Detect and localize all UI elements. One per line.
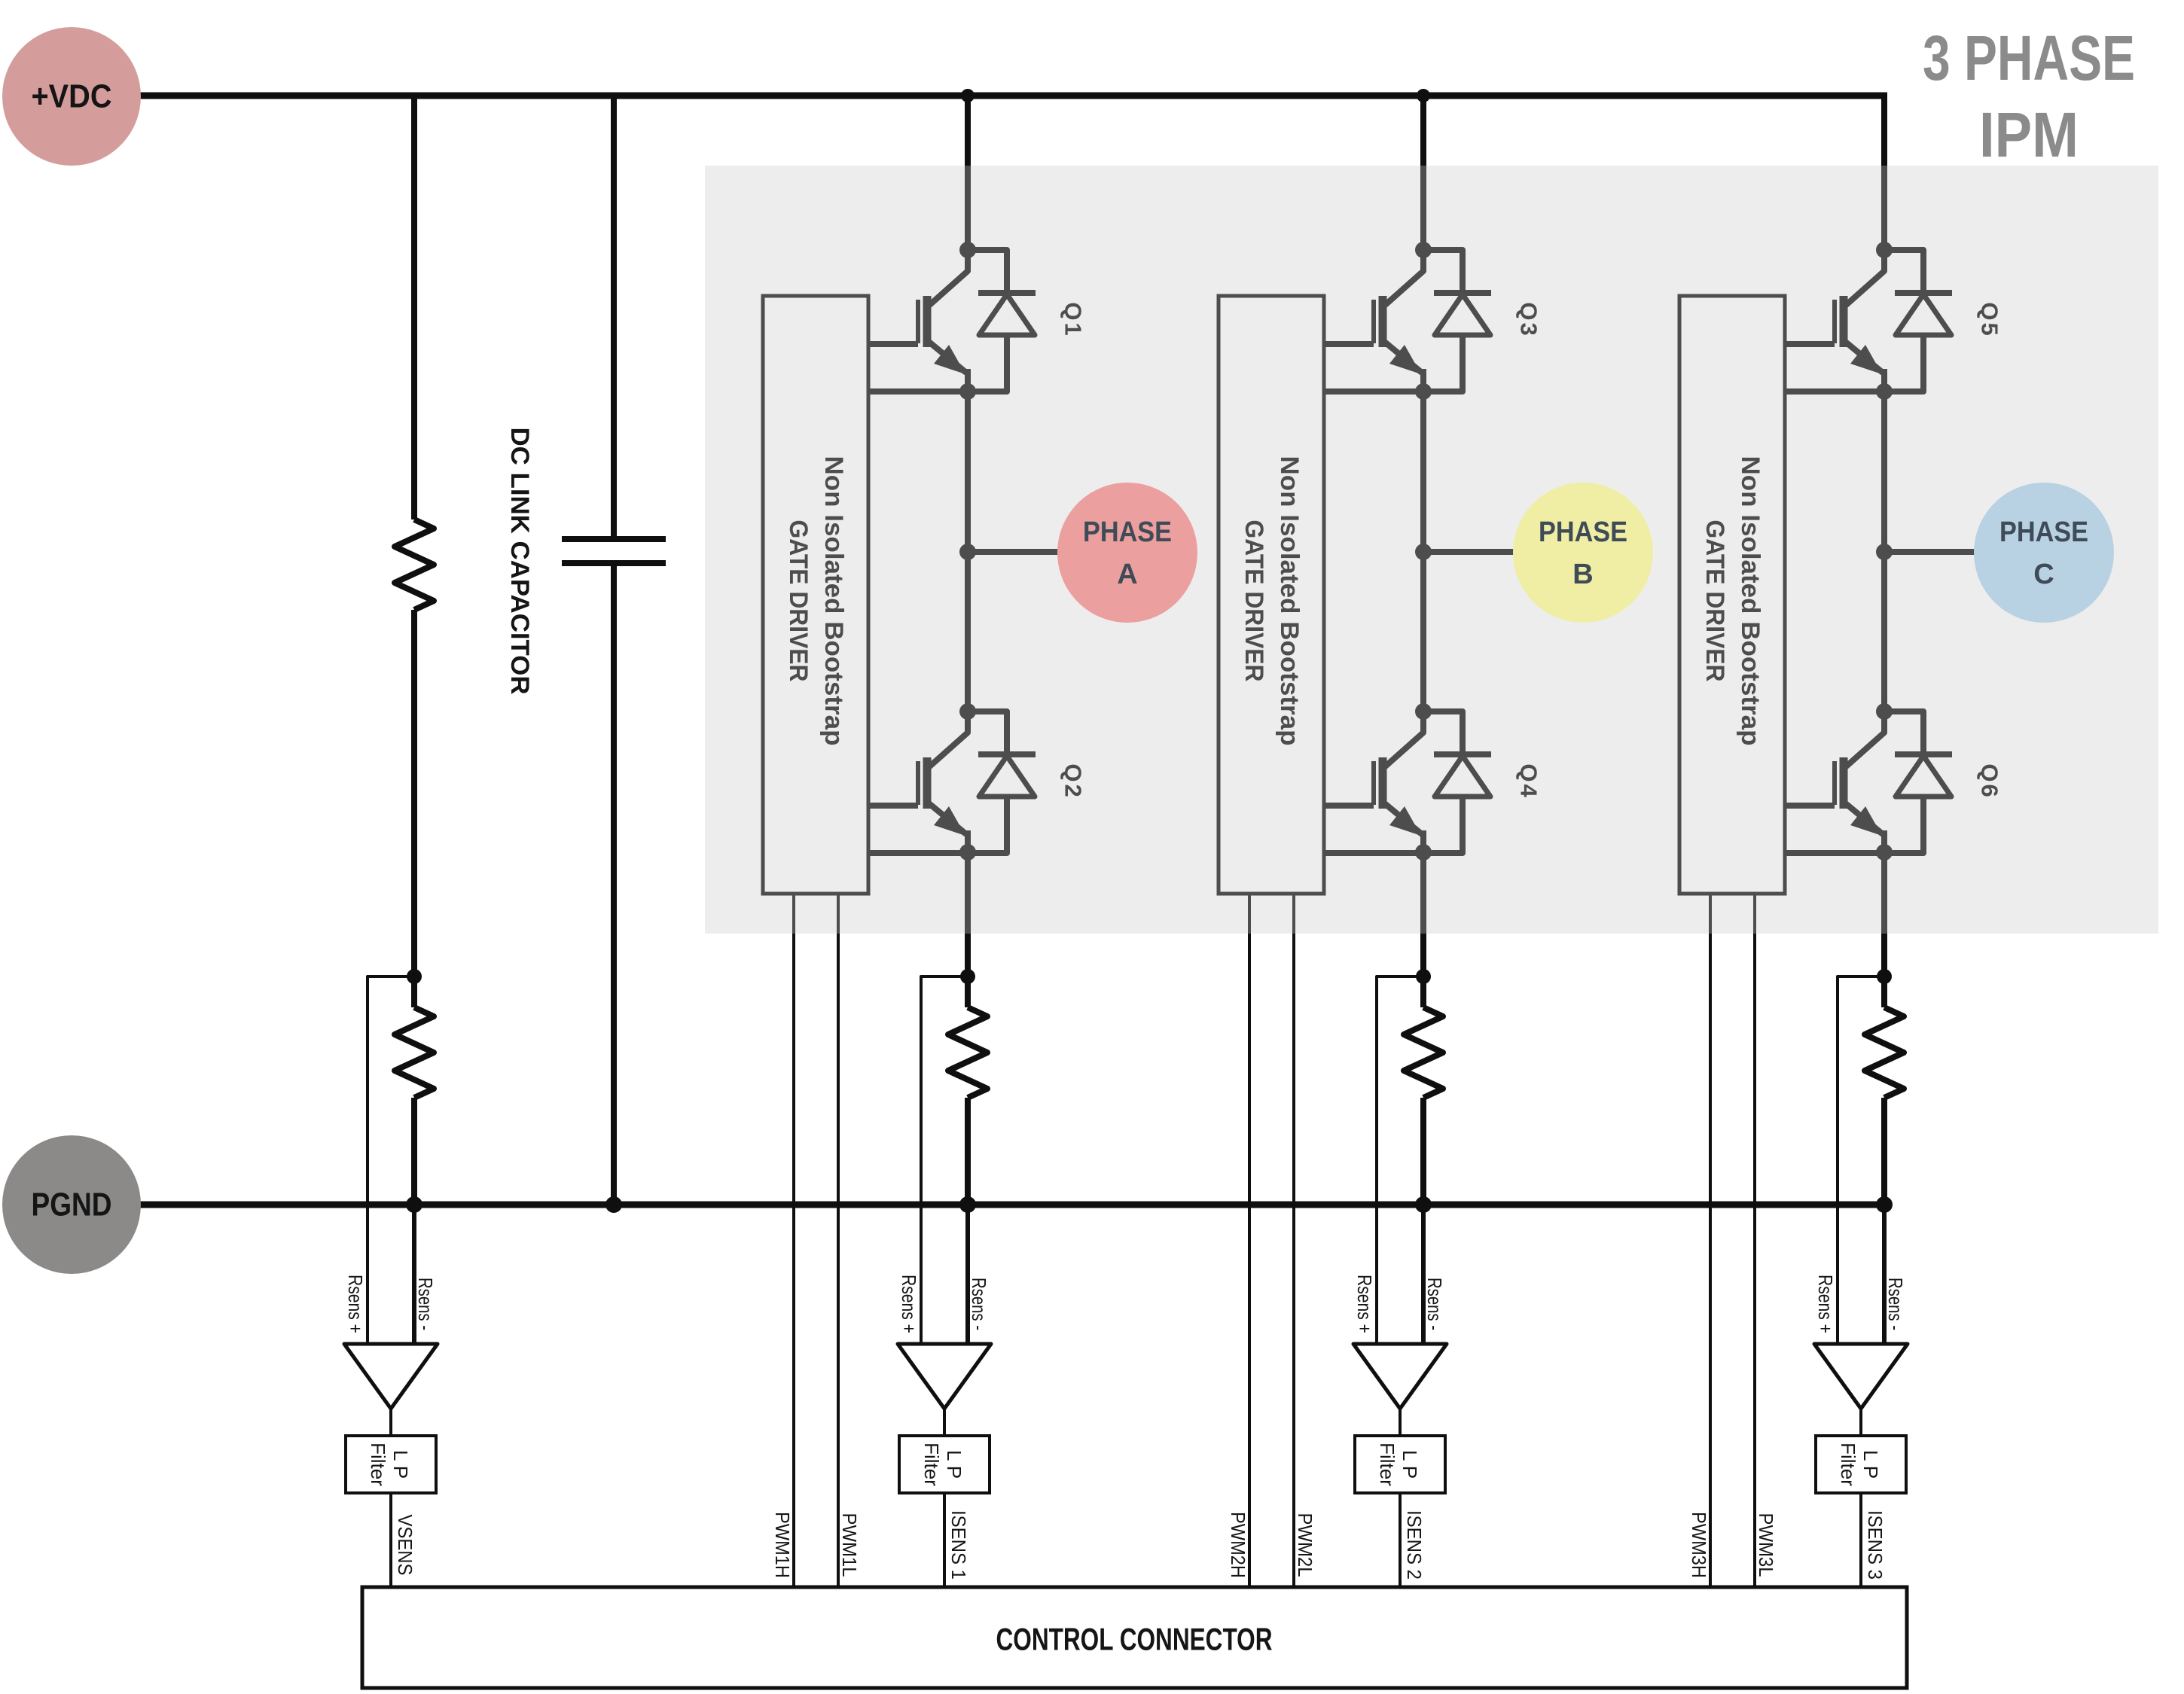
wire Rsens+ tap I2	[1377, 976, 1423, 1344]
node collector Q4	[1415, 703, 1432, 720]
label ISENS 2	[1403, 1510, 1426, 1580]
svg-text:Filter: Filter	[367, 1443, 389, 1486]
wire gate lead Q4	[1324, 803, 1374, 809]
svg-text:PWM1H: PWM1H	[771, 1512, 794, 1578]
svg-text:A: A	[1117, 559, 1137, 590]
wire phase B midpoint	[1420, 392, 1426, 711]
wire +VDC rail to Q3 (phase B top feed)	[1420, 93, 1426, 250]
node +VDC	[2, 27, 141, 166]
wire LP filter I1 to connector	[943, 1493, 946, 1587]
transistor Q6 (IGBT)	[1835, 711, 1884, 853]
wire phase C midpoint	[1881, 392, 1887, 711]
wire emitter lead Q5	[1785, 388, 1884, 395]
svg-text:Q2: Q2	[1060, 763, 1087, 799]
svg-text:B: B	[1572, 559, 1593, 590]
LP filter block I2	[1355, 1436, 1445, 1493]
label ISENS 3	[1864, 1510, 1887, 1580]
wire Rsens- sense I1	[965, 1205, 970, 1344]
LP filter block V	[346, 1436, 436, 1493]
resistor Rsens I1	[948, 1007, 987, 1098]
node RsensI1 top tap	[960, 969, 975, 984]
label PWM1L	[838, 1513, 861, 1577]
wire DC link branch bottom	[611, 563, 617, 1205]
svg-text:PWM3L: PWM3L	[1755, 1513, 1777, 1577]
label PWM2L	[1294, 1513, 1316, 1577]
node emitter Q3 / phase B upper	[1415, 383, 1432, 400]
wire LP filter V to connector	[389, 1493, 392, 1587]
label Q4	[1516, 763, 1542, 799]
diode D6 freewheel	[1884, 711, 1952, 853]
wire Rsens I1 to PGND rail	[965, 1098, 971, 1205]
transistor Q2 (IGBT)	[918, 711, 968, 853]
wire R1 to Rsens tap	[411, 610, 417, 976]
op-amp A3 sense amplifier	[1814, 1344, 1908, 1409]
label Rsens - (I1)	[968, 1278, 990, 1330]
wire LP filter I3 to connector	[1859, 1493, 1862, 1587]
wire tap dot to Rsens I3	[1881, 976, 1887, 1007]
svg-text:PWM3H: PWM3H	[1688, 1512, 1710, 1578]
label ISENS 1	[947, 1510, 970, 1580]
wire Rsens+ tap I1	[921, 976, 968, 1344]
transistor Q4 (IGBT)	[1374, 711, 1423, 853]
wire gate lead Q6	[1785, 803, 1835, 809]
wire to PHASE A terminal	[968, 549, 1060, 555]
wire divider branch from +VDC rail	[411, 96, 417, 519]
resistor Rsens V	[395, 1007, 434, 1098]
node emitter Q6	[1876, 844, 1893, 861]
wire PWM3H	[1709, 894, 1712, 1587]
gate driver U2 (Non Isolated Bootstrap)	[1219, 296, 1324, 894]
label Q6	[1977, 763, 2003, 799]
label Rsens - (V)	[414, 1278, 437, 1330]
svg-text:Non Isolated Bootstrap: Non Isolated Bootstrap	[1275, 456, 1304, 746]
title 3 PHASE IPM	[1923, 23, 2135, 170]
transistor Q1 (IGBT)	[918, 250, 968, 392]
resistor Rsens I2	[1404, 1007, 1443, 1098]
svg-text:ISENS 1: ISENS 1	[947, 1510, 970, 1580]
wire PWM2H	[1248, 894, 1251, 1587]
wire Rsens- sense V	[412, 1205, 416, 1344]
node RsensI2 top tap	[1416, 969, 1431, 984]
label PWM3H	[1688, 1512, 1710, 1578]
wire emitter Q6 to current sense	[1881, 852, 1887, 976]
svg-text:ISENS 3: ISENS 3	[1864, 1510, 1887, 1580]
junction dot DC link / PGND rail	[605, 1196, 622, 1213]
wire emitter lead Q4	[1324, 850, 1423, 856]
wire amp to LP filter I3	[1859, 1409, 1862, 1436]
wire gate lead Q2	[868, 803, 918, 809]
wire to PHASE C terminal	[1884, 549, 1976, 555]
label Q2	[1060, 763, 1087, 799]
svg-text:PGND: PGND	[32, 1187, 112, 1223]
wire Rsens- sense I2	[1421, 1205, 1426, 1344]
wire Rsens I2 to PGND rail	[1420, 1098, 1426, 1205]
label Rsens + (I2)	[1353, 1275, 1376, 1333]
wire Rsens V to PGND rail	[411, 1098, 417, 1205]
label Q5	[1977, 302, 2003, 337]
wire tap dot to Rsens V	[411, 976, 417, 1007]
node emitter Q5 / phase C upper	[1876, 383, 1893, 400]
wire DC link branch top	[611, 96, 617, 539]
svg-text:GATE DRIVER: GATE DRIVER	[1701, 520, 1729, 682]
wire LP filter I2 to connector	[1399, 1493, 1402, 1587]
wire +VDC rail to Q1 (phase A top feed)	[965, 93, 971, 250]
svg-text:GATE DRIVER: GATE DRIVER	[784, 520, 813, 682]
svg-text:L P: L P	[1859, 1450, 1882, 1479]
node PGND	[2, 1135, 141, 1274]
wire Rsens- sense I3	[1882, 1205, 1887, 1344]
junction dot Rsens I2 / PGND rail	[1415, 1196, 1432, 1213]
svg-text:PWM2H: PWM2H	[1227, 1512, 1249, 1578]
svg-text:3 PHASE: 3 PHASE	[1923, 23, 2135, 93]
svg-text:ISENS 2: ISENS 2	[1403, 1510, 1426, 1580]
wire gate lead Q1	[868, 341, 918, 347]
label Q1	[1060, 302, 1087, 337]
svg-text:Non Isolated Bootstrap: Non Isolated Bootstrap	[819, 456, 848, 746]
svg-text:Rsens +: Rsens +	[344, 1275, 367, 1333]
wire amp to LP filter I2	[1399, 1409, 1402, 1436]
svg-text:L P: L P	[389, 1450, 412, 1479]
op-amp A1 sense amplifier	[898, 1344, 991, 1409]
svg-text:Non Isolated Bootstrap: Non Isolated Bootstrap	[1736, 456, 1765, 746]
svg-text:Q4: Q4	[1516, 763, 1542, 799]
wire tap dot to Rsens I2	[1420, 976, 1426, 1007]
node collector Q6	[1876, 703, 1893, 720]
wire +VDC rail to Q5 (phase C top feed)	[1881, 93, 1887, 250]
svg-text:Rsens +: Rsens +	[1814, 1275, 1837, 1333]
svg-text:VSENS: VSENS	[394, 1515, 416, 1576]
label Rsens - (I2)	[1423, 1278, 1446, 1330]
svg-text:PWM2L: PWM2L	[1294, 1513, 1316, 1577]
wire PGND rail	[139, 1202, 1884, 1208]
wire emitter lead Q3	[1324, 388, 1423, 395]
diode D4 freewheel	[1423, 711, 1491, 853]
IPM module background	[705, 166, 2158, 934]
node phase C junction	[1876, 544, 1893, 560]
svg-text:+VDC: +VDC	[32, 78, 112, 115]
svg-text:PHASE: PHASE	[1083, 516, 1172, 548]
svg-text:Q3: Q3	[1516, 302, 1542, 337]
svg-text:DC LINK CAPACITOR: DC LINK CAPACITOR	[505, 428, 534, 695]
node RsensV top tap	[407, 969, 422, 984]
svg-text:Rsens +: Rsens +	[1353, 1275, 1376, 1333]
label Rsens + (V)	[344, 1275, 367, 1333]
junction dot Rsens V / PGND rail	[406, 1196, 422, 1213]
svg-text:L P: L P	[943, 1450, 965, 1479]
node emitter Q2	[959, 844, 976, 861]
node phase B junction	[1415, 544, 1432, 560]
wire PWM3L	[1753, 894, 1756, 1587]
node emitter Q4	[1415, 844, 1432, 861]
transistor Q5 (IGBT)	[1835, 250, 1884, 392]
capacitor C1 DC link	[562, 539, 666, 563]
wire phase A midpoint	[965, 392, 971, 711]
wire PWM1H	[792, 894, 795, 1587]
wire Rsens I3 to PGND rail	[1881, 1098, 1887, 1205]
transistor Q3 (IGBT)	[1374, 250, 1423, 392]
wire emitter Q4 to current sense	[1420, 852, 1426, 976]
svg-text:Rsens +: Rsens +	[898, 1275, 920, 1333]
label VSENS	[394, 1515, 416, 1576]
wire emitter lead Q6	[1785, 850, 1884, 856]
node PHASE A	[1057, 483, 1197, 623]
label PWM1H	[771, 1512, 794, 1578]
svg-text:CONTROL CONNECTOR: CONTROL CONNECTOR	[996, 1622, 1273, 1657]
svg-text:Filter: Filter	[1376, 1443, 1399, 1486]
gate driver U3 (Non Isolated Bootstrap)	[1679, 296, 1785, 894]
svg-text:Filter: Filter	[920, 1443, 943, 1486]
wire +VDC rail	[139, 93, 1887, 99]
junction dot +VDC rail / phase B leg	[1417, 89, 1430, 102]
wire Rsens+ tap V	[368, 976, 414, 1344]
svg-text:Q1: Q1	[1060, 302, 1087, 337]
svg-text:Filter: Filter	[1837, 1443, 1859, 1486]
svg-text:L P: L P	[1399, 1450, 1421, 1479]
label PWM2H	[1227, 1512, 1249, 1578]
label Rsens + (I1)	[898, 1275, 920, 1333]
node PHASE C	[1974, 483, 2114, 623]
svg-text:PHASE: PHASE	[1999, 516, 2088, 548]
node collector Q2	[959, 703, 976, 720]
svg-text:Q5: Q5	[1977, 302, 2003, 337]
wire emitter lead Q1	[868, 388, 968, 395]
node PHASE B	[1513, 483, 1653, 623]
wire emitter Q2 to current sense	[965, 852, 971, 976]
node RsensI3 top tap	[1877, 969, 1892, 984]
wire gate lead Q3	[1324, 341, 1374, 347]
op-amp AV sense amplifier	[344, 1344, 438, 1409]
svg-text:Rsens -: Rsens -	[414, 1278, 437, 1330]
svg-text:PHASE: PHASE	[1539, 516, 1627, 548]
svg-text:Q6: Q6	[1977, 763, 2003, 799]
wire amp to LP filter V	[389, 1409, 392, 1436]
node phase A junction	[959, 544, 976, 560]
diode D3 freewheel	[1423, 250, 1491, 392]
node collector Q3	[1415, 242, 1432, 258]
svg-text:Rsens -: Rsens -	[1423, 1278, 1446, 1330]
node collector Q5	[1876, 242, 1893, 258]
wire Rsens+ tap I3	[1838, 976, 1884, 1344]
resistor Rsens I3	[1865, 1007, 1904, 1098]
control connector	[362, 1587, 1907, 1688]
label Rsens + (I3)	[1814, 1275, 1837, 1333]
svg-text:IPM: IPM	[1979, 99, 2079, 170]
node emitter Q1 / phase A upper	[959, 383, 976, 400]
label Rsens - (I3)	[1884, 1278, 1907, 1330]
node collector Q1	[959, 242, 976, 258]
wire tap dot to Rsens I1	[965, 976, 971, 1007]
gate driver U1 (Non Isolated Bootstrap)	[763, 296, 868, 894]
junction dot +VDC rail / phase A leg	[961, 89, 975, 102]
wire emitter lead Q2	[868, 850, 968, 856]
svg-text:Rsens -: Rsens -	[968, 1278, 990, 1330]
svg-text:C: C	[2033, 559, 2054, 590]
svg-text:Rsens -: Rsens -	[1884, 1278, 1907, 1330]
LP filter block I1	[899, 1436, 990, 1493]
diode D1 freewheel	[968, 250, 1036, 392]
svg-text:GATE DRIVER: GATE DRIVER	[1240, 520, 1268, 682]
junction dot Rsens I1 / PGND rail	[959, 1196, 976, 1213]
label DC LINK CAPACITOR	[505, 428, 534, 695]
label Q3	[1516, 302, 1542, 337]
label PWM3L	[1755, 1513, 1777, 1577]
wire PWM1L	[837, 894, 840, 1587]
diode D2 freewheel	[968, 711, 1036, 853]
svg-text:PWM1L: PWM1L	[838, 1513, 861, 1577]
diode D5 freewheel	[1884, 250, 1952, 392]
wire amp to LP filter I1	[943, 1409, 946, 1436]
op-amp A2 sense amplifier	[1353, 1344, 1447, 1409]
junction dot Rsens I3 / PGND rail	[1876, 1196, 1893, 1213]
wire gate lead Q5	[1785, 341, 1835, 347]
LP filter block I3	[1816, 1436, 1906, 1493]
wire to PHASE B terminal	[1423, 549, 1515, 555]
resistor R1 divider top	[395, 519, 434, 610]
wire PWM2L	[1292, 894, 1295, 1587]
